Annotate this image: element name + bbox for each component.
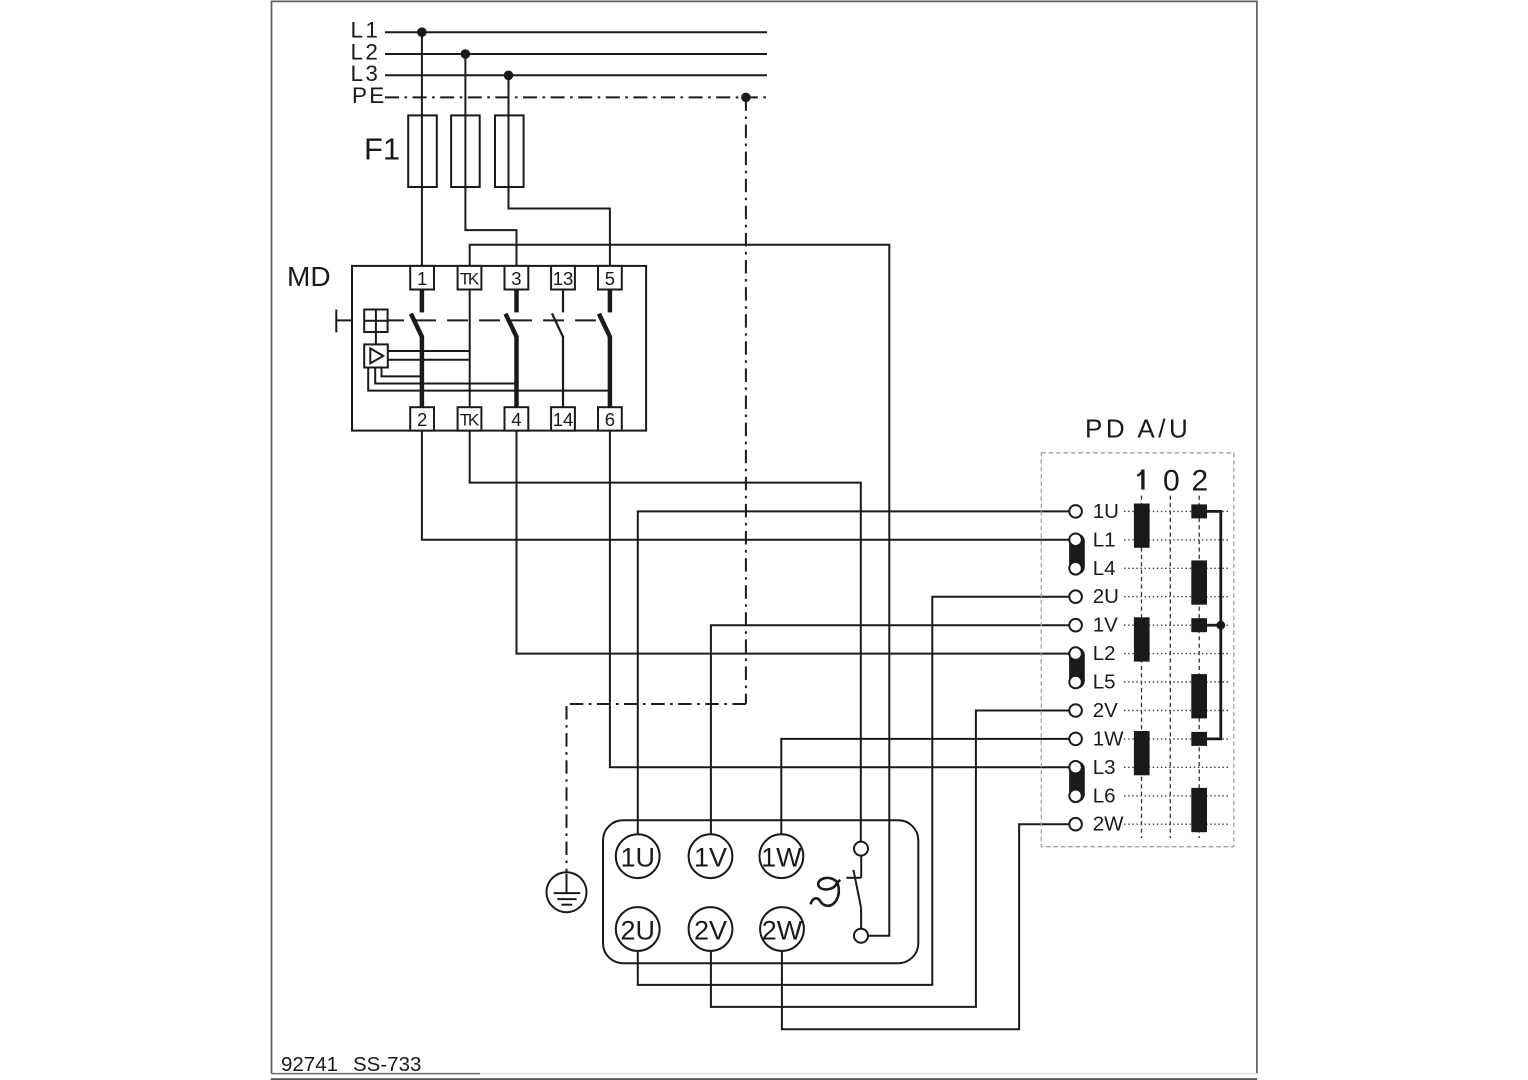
- svg-text:L5: L5: [1093, 671, 1116, 694]
- svg-text:2U: 2U: [620, 915, 655, 945]
- svg-text:SS-733: SS-733: [353, 1053, 421, 1076]
- row labels: [1093, 500, 1124, 836]
- fuse F1 pole 1: [408, 115, 437, 187]
- trip unit to TK wires: [388, 350, 470, 352]
- svg-text:2U: 2U: [1093, 585, 1119, 608]
- operator window symbol: [364, 310, 387, 333]
- svg-text:1W: 1W: [1093, 727, 1124, 750]
- selector bar col2 L6-2W: [1191, 788, 1207, 832]
- G7: bottom text: [281, 1053, 421, 1076]
- terminal 14: [551, 407, 575, 430]
- wire terminal 4 to PD L2: [517, 431, 1070, 654]
- svg-text:1V: 1V: [694, 843, 727, 873]
- row grid dotted lines: [1124, 511, 1229, 824]
- manual operator tick: [335, 310, 337, 333]
- wire TK bottom to switch top: [470, 431, 861, 842]
- rail PE (dash-dot): [385, 96, 767, 98]
- terminal TK bottom: [458, 407, 482, 430]
- wire motor 1U to PD 1U: [638, 511, 1070, 835]
- svg-text:3: 3: [511, 268, 521, 289]
- TK internal wire: [469, 290, 471, 408]
- column grid line 2: [1198, 496, 1200, 838]
- junction L3: [504, 71, 514, 81]
- column grid line 1: [1141, 496, 1143, 838]
- thermal switch blade: [853, 870, 861, 908]
- svg-text:L4: L4: [1093, 557, 1116, 580]
- selector pad col2 1W: [1191, 732, 1207, 746]
- svg-text:2: 2: [417, 409, 427, 430]
- row terminal circles: [1069, 505, 1082, 830]
- svg-text:TK: TK: [460, 410, 480, 429]
- trip unit output to pole 4 conductor: [375, 368, 516, 384]
- svg-text:L3: L3: [1093, 756, 1116, 779]
- drawing frame: [272, 1, 1257, 1073]
- svg-text:2W: 2W: [1093, 813, 1124, 836]
- trip unit output to pole 2 conductor: [382, 368, 422, 377]
- junction PE: [741, 93, 751, 103]
- junction L2: [461, 49, 471, 59]
- svg-text:MD: MD: [287, 261, 331, 292]
- svg-text:1W: 1W: [761, 843, 802, 873]
- G6: PD panel: [1041, 413, 1234, 846]
- svg-text:1: 1: [417, 268, 427, 289]
- G3: MD block: [287, 261, 646, 431]
- contactor MD outline: [352, 266, 646, 431]
- terminal 4: [505, 407, 529, 430]
- wire motor 1V to PD 1V: [711, 625, 1070, 835]
- thermal switch contact top: [854, 842, 868, 856]
- svg-text:TK: TK: [460, 269, 480, 288]
- trip unit U (triangle box): [364, 344, 388, 367]
- svg-text:1V: 1V: [1093, 614, 1118, 637]
- svg-text:2W: 2W: [762, 915, 803, 945]
- thermal switch blade lower link: [860, 908, 862, 929]
- terminal 1V: [689, 834, 733, 878]
- G4: middle wiring: [422, 245, 1070, 1029]
- svg-text:14: 14: [553, 409, 574, 430]
- rail L2: [385, 53, 767, 55]
- svg-text:92741: 92741: [281, 1053, 338, 1076]
- terminal 2U: [616, 907, 660, 951]
- wire L3 to terminal 5: [509, 75, 610, 266]
- svg-text:PE: PE: [352, 83, 387, 108]
- wire L1 to terminal 1: [421, 32, 423, 266]
- selector pad col2 1V: [1191, 618, 1207, 632]
- PD panel dashed border: [1041, 453, 1234, 847]
- ground symbol: [547, 872, 587, 912]
- selector pad col2 1U: [1191, 504, 1207, 518]
- contact pole 5-6: [599, 290, 610, 408]
- wire motor 2U to PD 2U: [638, 597, 1070, 985]
- svg-text:2V: 2V: [1093, 699, 1118, 722]
- wire motor 2W to PD 2W: [782, 824, 1070, 1029]
- selector bar col2 L5-2V: [1191, 674, 1207, 718]
- svg-text:6: 6: [605, 409, 615, 430]
- junction L1: [417, 27, 427, 37]
- wire motor 2V to PD 2V: [711, 711, 1070, 1007]
- wire terminal 6 to PD L3: [610, 431, 1070, 768]
- column header 1: [1141, 470, 1144, 490]
- terminal TK top: [458, 266, 482, 290]
- column grid line 0: [1169, 496, 1171, 838]
- thermal switch fixed stub: [860, 856, 862, 878]
- selector bar col1 1V-L2: [1134, 617, 1150, 661]
- thermal switch contact bottom: [854, 929, 868, 943]
- terminal 2W: [760, 907, 804, 951]
- contact pole 1-2: [411, 290, 422, 408]
- terminal 1U: [616, 834, 660, 878]
- rail L1: [385, 31, 767, 33]
- selector bar col1 1U-L1: [1134, 504, 1150, 548]
- svg-text:1U: 1U: [1093, 500, 1119, 523]
- terminal 1W: [760, 834, 804, 878]
- terminal 1: [410, 266, 434, 290]
- theta temperature symbol: [811, 878, 841, 906]
- terminal 6: [598, 407, 622, 430]
- motor terminal box outline: [603, 820, 918, 963]
- trip unit output to pole 6 conductor: [368, 368, 610, 391]
- svg-text:2: 2: [1192, 465, 1209, 498]
- G5: motor terminal box: [603, 820, 918, 963]
- svg-text:L2: L2: [1093, 642, 1116, 665]
- terminal 2V: [689, 907, 733, 951]
- fuse F1 pole 2: [451, 115, 480, 187]
- link bar L2-L5: [1069, 647, 1085, 688]
- contact pole 3-4: [506, 290, 517, 408]
- svg-text:5: 5: [605, 268, 615, 289]
- G1: supply rails: [351, 18, 768, 108]
- svg-text:0: 0: [1163, 465, 1180, 498]
- auxiliary contact 13-14: [552, 290, 563, 408]
- trip linkage dashed line: [388, 319, 596, 321]
- selector bar col2 L4-2U: [1191, 560, 1207, 604]
- svg-text:2V: 2V: [694, 915, 727, 945]
- G2: fuses and drops: [364, 32, 746, 873]
- svg-text:L6: L6: [1093, 784, 1116, 807]
- terminal 2: [410, 407, 434, 430]
- bridge link 1U-1V-1W: [1207, 511, 1221, 739]
- svg-text:1U: 1U: [620, 843, 655, 873]
- wire motor 1W to PD 1W: [781, 739, 1069, 836]
- link bar L3-L6: [1069, 761, 1085, 802]
- link bar L1-L4: [1069, 534, 1085, 575]
- svg-text:13: 13: [553, 268, 574, 289]
- wire TK top to switch bottom: [470, 245, 890, 936]
- wire L2 to terminal 3: [465, 54, 516, 266]
- bridge junction at 1V: [1216, 621, 1225, 630]
- rail L3: [385, 74, 767, 76]
- thermal switch contact bar: [846, 877, 861, 879]
- terminal 5: [598, 266, 622, 290]
- wire PE drop (dash-dot): [745, 97, 747, 704]
- operator to trip unit link: [375, 332, 377, 344]
- svg-text:PD A/U: PD A/U: [1085, 413, 1191, 443]
- fuse F1 pole 3: [495, 115, 524, 187]
- svg-text:F1: F1: [364, 132, 400, 167]
- page bottom edge band: [271, 1078, 1258, 1080]
- svg-text:L1: L1: [1093, 528, 1116, 551]
- svg-text:4: 4: [511, 409, 521, 430]
- wire terminal 2 to PD L1: [422, 431, 1070, 540]
- selector bar col1 1W-L3: [1134, 731, 1150, 775]
- terminal 13: [551, 266, 575, 290]
- terminal 3: [505, 266, 529, 290]
